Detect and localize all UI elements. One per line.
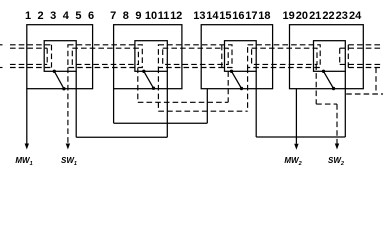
main winding inner coil group 1 xyxy=(44,41,76,72)
svg-text:11: 11 xyxy=(158,10,170,22)
wire stray dashed side near group3 (dashed) xyxy=(221,45,223,68)
start winding outer coil S3 xyxy=(248,45,321,68)
start winding inner coil S4 wrap bottom edge (left) xyxy=(10,63,47,65)
start winding outer coil S4 bottom edge (right) xyxy=(348,67,383,69)
main winding outer coil group 3 xyxy=(201,25,272,89)
start winding inner coil S4 wrap top edge (left) xyxy=(10,47,47,49)
jumper wire group 3 xyxy=(232,71,242,88)
start winding S4 wrap bottom edge dash at image edge xyxy=(0,67,3,69)
svg-text:13: 13 xyxy=(193,10,205,22)
wire S2 outer-left down (dashed) xyxy=(157,68,159,112)
main winding outer coil group 2 xyxy=(114,25,182,89)
svg-text:5: 5 xyxy=(75,10,81,22)
svg-text:8: 8 xyxy=(123,10,129,22)
wire SW2 lead (dashed) xyxy=(336,104,338,143)
junction dot group 2 outer coil xyxy=(152,87,155,90)
start winding inner coil S4 bottom edge (right) xyxy=(340,63,383,65)
svg-text:9: 9 xyxy=(135,10,141,22)
jumper wire group 4 xyxy=(324,71,334,88)
start winding inner coil S3 xyxy=(252,48,317,64)
wire S4 right-edge down (dashed) xyxy=(375,68,377,95)
wire to SW2 (dashed) xyxy=(316,103,337,105)
wire S3 inner-right down (dashed) xyxy=(315,64,317,104)
start winding inner coil S4 left side xyxy=(339,48,341,64)
start winding outer coil S4 wrap top edge (left) xyxy=(10,44,52,46)
wire S3 outer-left down (dashed) xyxy=(247,68,249,112)
junction dot group 1 outer coil xyxy=(62,87,65,90)
junction dot group 3 inner coil xyxy=(230,70,233,73)
wire loop up to group2 inner xyxy=(166,71,168,137)
start winding inner coil S4 wrap right side xyxy=(46,48,48,64)
svg-text:1: 1 xyxy=(25,10,31,22)
svg-text:10: 10 xyxy=(145,10,157,22)
svg-text:6: 6 xyxy=(88,10,94,22)
start winding outer coil S4 wrap right side xyxy=(51,45,53,68)
svg-text:18: 18 xyxy=(258,10,270,22)
jumper wire group 1 xyxy=(54,71,64,88)
junction dot group 3 outer coil xyxy=(240,87,243,90)
jumper wire group 2 xyxy=(144,71,154,88)
main winding outer coil group 4 xyxy=(290,25,364,89)
svg-text:7: 7 xyxy=(110,10,116,22)
wire up to group3 inner bottom (dashed) xyxy=(227,71,229,102)
wire group3 inner to loop down xyxy=(255,71,257,137)
svg-text:4: 4 xyxy=(63,10,70,22)
svg-text:16: 16 xyxy=(232,10,244,22)
arrowhead MW1 xyxy=(25,144,29,150)
wire loop group2-group3 bottom xyxy=(114,122,208,124)
junction dot group 2 inner coil xyxy=(142,70,145,73)
wire loop up to group4 inner xyxy=(344,71,346,137)
start winding outer coil S4 wrap bottom edge (left) xyxy=(10,67,52,69)
wire MW1 lead xyxy=(26,89,28,144)
svg-text:19: 19 xyxy=(282,10,294,22)
svg-text:22: 22 xyxy=(322,10,334,22)
svg-text:23: 23 xyxy=(336,10,348,22)
start winding S4 wrap top edge dash at image edge xyxy=(0,44,3,46)
wire group2 outer-left down xyxy=(113,89,115,124)
start winding inner coil S1 xyxy=(72,48,138,64)
wire loop group3-group4 bottom xyxy=(256,136,345,138)
junction dot group 4 inner coil xyxy=(322,70,325,73)
wire SW1 lead (dashed) xyxy=(67,68,69,144)
start winding outer coil S4 top edge (right) xyxy=(348,44,383,46)
start winding outer coil S4 left side xyxy=(347,45,349,68)
svg-text:14: 14 xyxy=(206,10,219,22)
wire S4 connection stub (dashed) xyxy=(346,93,383,95)
wire MW2 lead xyxy=(295,89,297,144)
wire S1 outer-right down (dashed) xyxy=(137,68,139,103)
svg-text:12: 12 xyxy=(170,10,182,22)
arrowhead MW2 xyxy=(294,144,298,150)
main winding inner coil group 4 xyxy=(314,41,346,72)
svg-text:20: 20 xyxy=(296,10,308,22)
wire loop S1 to group3 inner (dashed) xyxy=(138,101,228,103)
arrowhead SW1 xyxy=(66,144,70,150)
svg-text:17: 17 xyxy=(245,10,257,22)
svg-text:2: 2 xyxy=(38,10,44,22)
svg-text:24: 24 xyxy=(349,10,362,22)
arrowhead SW2 xyxy=(335,144,339,150)
wire loop S2 to group3 outer (dashed) xyxy=(158,110,247,112)
main winding inner coil group 2 xyxy=(135,41,167,72)
junction dot group 1 inner coil xyxy=(53,70,56,73)
svg-text:3: 3 xyxy=(50,10,56,22)
start winding inner coil S2 xyxy=(163,48,229,64)
wire loop group1-group2 bottom xyxy=(76,136,167,138)
start winding inner coil S4 top edge (right) xyxy=(340,47,383,49)
junction dot group 4 outer coil xyxy=(332,87,335,90)
start winding outer coil S1 xyxy=(68,45,142,68)
start winding outer coil S2 xyxy=(158,45,232,68)
svg-text:15: 15 xyxy=(219,10,231,22)
main winding outer coil group 1 xyxy=(27,25,93,89)
main winding inner coil group 3 xyxy=(225,41,257,72)
wire group1 inner to loop down xyxy=(75,71,77,137)
wire loop up to group3 outer xyxy=(206,89,208,124)
svg-text:21: 21 xyxy=(309,10,321,22)
